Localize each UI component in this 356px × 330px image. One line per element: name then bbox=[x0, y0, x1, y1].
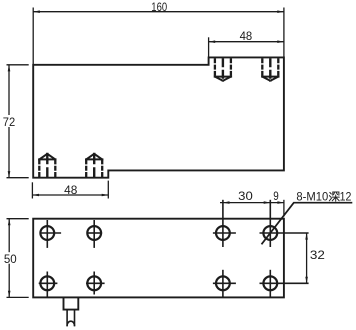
hole B3 bbox=[213, 270, 236, 297]
hole A2 bbox=[87, 220, 103, 248]
svg-text:160: 160 bbox=[151, 2, 167, 14]
svg-text:50: 50 bbox=[4, 254, 17, 266]
side view body outline bbox=[33, 57, 284, 177]
svg-text:48: 48 bbox=[240, 31, 253, 43]
plan view body outline bbox=[33, 219, 284, 298]
dimension 30 / 9 bbox=[220, 200, 284, 217]
svg-text:48: 48 bbox=[64, 185, 77, 197]
cable gland bbox=[64, 297, 79, 309]
tapped hole top-right #2 bbox=[261, 58, 279, 82]
dimension 160 bbox=[33, 8, 284, 65]
tapped hole bottom-left #2 bbox=[85, 153, 103, 178]
tapped hole bottom-left #1 bbox=[38, 153, 56, 178]
dimension 48 bottom bbox=[32, 181, 108, 199]
svg-text:30: 30 bbox=[238, 191, 253, 203]
tapped hole top-right #1 bbox=[214, 58, 232, 82]
dimension 32 bbox=[306, 233, 308, 283]
hole A1 (top-left) bbox=[40, 220, 62, 248]
svg-text:32: 32 bbox=[310, 250, 325, 262]
svg-text:8-M10: 8-M10 bbox=[296, 192, 328, 204]
hole B4 bbox=[260, 270, 309, 297]
svg-text:9: 9 bbox=[273, 191, 279, 203]
hole A4 bbox=[86, 272, 105, 295]
dimension 72 bbox=[7, 65, 29, 178]
dimension 50 bbox=[7, 219, 29, 298]
glyph shen (deep) bbox=[329, 192, 339, 201]
hole B2 (top right group right) bbox=[260, 200, 309, 247]
hole B1 (top right group left) bbox=[213, 200, 236, 247]
svg-text:12: 12 bbox=[340, 192, 352, 204]
dimension 48 top bbox=[209, 37, 284, 57]
hole A3 (bottom-left) bbox=[39, 272, 58, 297]
cable bbox=[67, 310, 74, 327]
svg-text:72: 72 bbox=[3, 117, 15, 129]
leader 8-M10x12 bbox=[262, 203, 353, 245]
